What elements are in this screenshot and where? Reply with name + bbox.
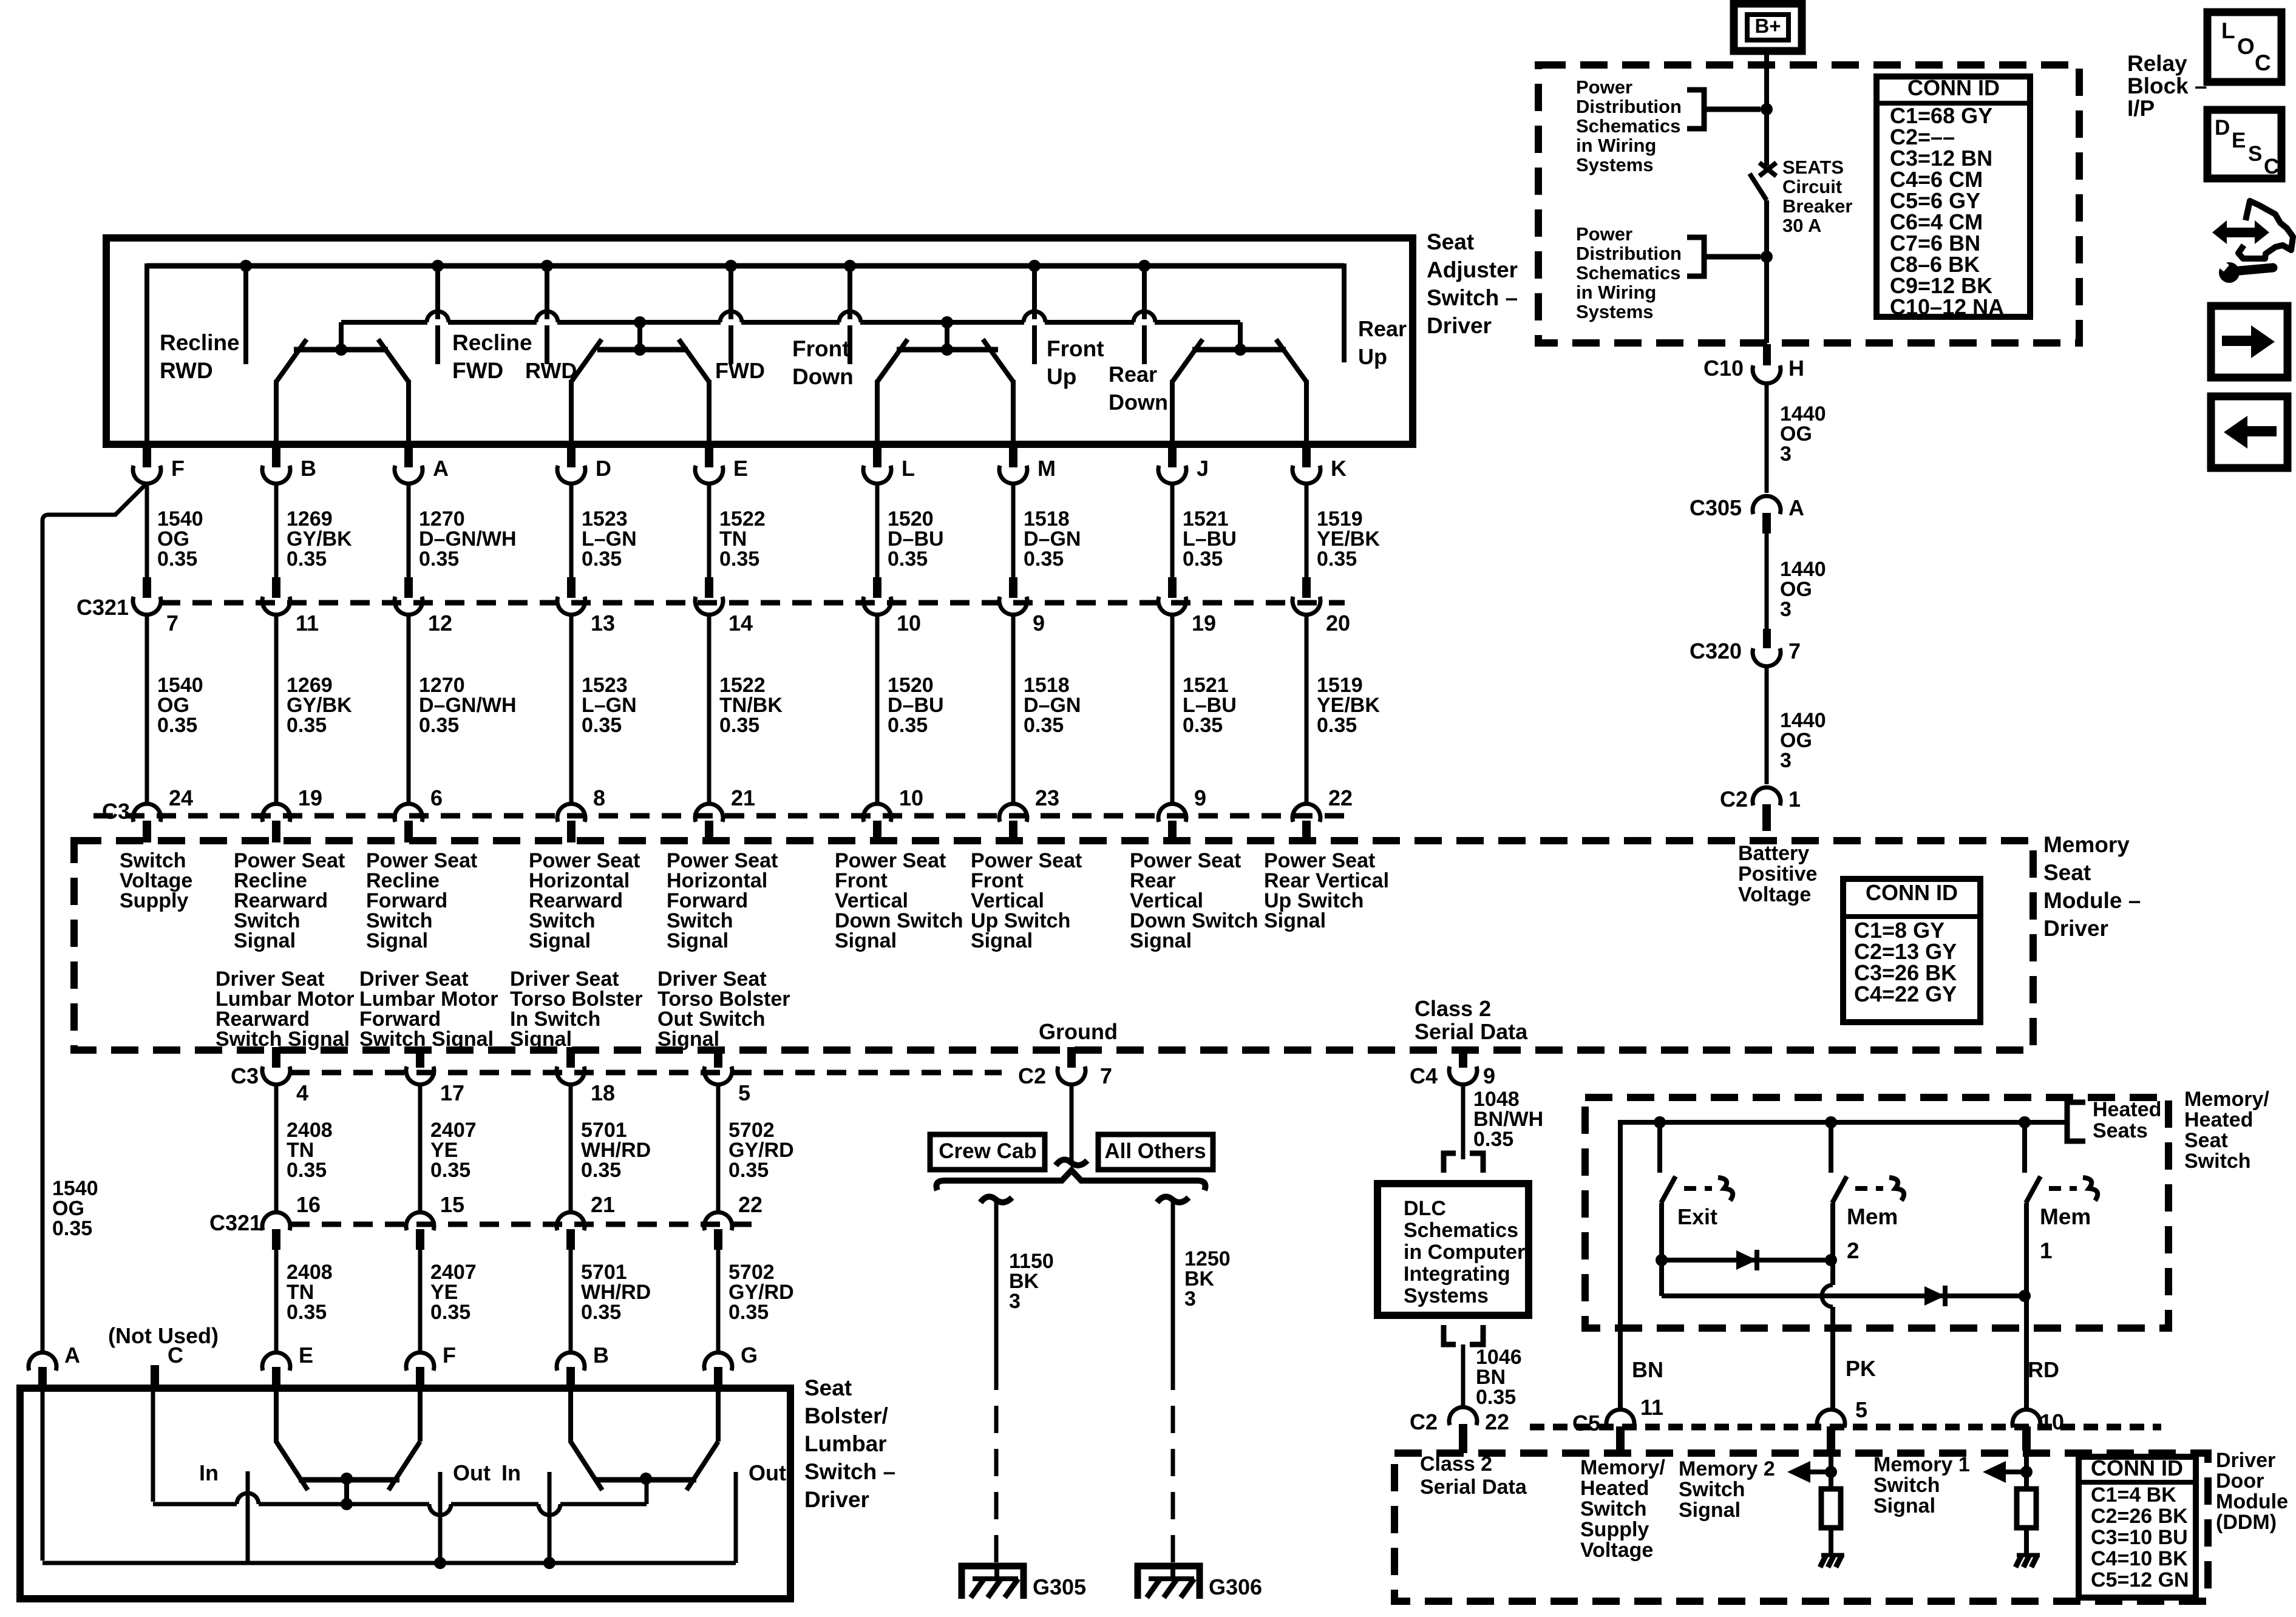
svg-text:Systems: Systems: [1404, 1284, 1489, 1307]
junction dot power distribution tap 2: [1761, 251, 1773, 263]
conn id table ddm: [2079, 1457, 2196, 1598]
wire J pin to C321: [1170, 483, 1175, 578]
svg-text:B: B: [593, 1343, 609, 1368]
hop In1: [237, 1501, 259, 1507]
svg-text:Switch Signal: Switch Signal: [216, 1028, 350, 1051]
svg-text:C: C: [2264, 155, 2279, 178]
wire 1440 OG segment 1: [1765, 384, 1769, 493]
svg-text:Adjuster: Adjuster: [1427, 257, 1518, 282]
svg-text:Seat: Seat: [1427, 229, 1474, 254]
wire C321 to seat bolster switch column 2408: [274, 1236, 279, 1352]
svg-text:C2: C2: [1018, 1063, 1046, 1088]
svg-text:FWD: FWD: [452, 358, 503, 383]
seat adjuster switch box: [106, 238, 1413, 444]
junction dot diode1 right: [1825, 1254, 1837, 1266]
wire PK inside ddm: [1829, 1437, 1833, 1489]
svg-text:22: 22: [1328, 785, 1353, 810]
svg-text:Down: Down: [1109, 390, 1168, 415]
wire hop of lower bus at contact Front Down: [840, 319, 860, 325]
contact Recline RWD: [243, 266, 248, 364]
svg-text:Battery: Battery: [1738, 842, 1809, 865]
svg-text:Memory/: Memory/: [1580, 1456, 1665, 1479]
pin E seat adjuster switch: [705, 444, 713, 467]
connector C321 pin 10: [863, 597, 891, 615]
svg-text:SEATS: SEATS: [1782, 157, 1844, 178]
wire A pin to C321: [407, 483, 411, 578]
svg-text:C2=26 BK: C2=26 BK: [2091, 1505, 2188, 1528]
connector C321 pin 20: [1292, 597, 1320, 615]
bracket power distribution 2: [1687, 237, 1761, 276]
pin D seat adjuster switch: [567, 444, 576, 467]
svg-text:A: A: [433, 456, 449, 481]
svg-text:1: 1: [2040, 1238, 2053, 1263]
svg-text:19: 19: [298, 785, 322, 810]
svg-text:0.35: 0.35: [719, 714, 759, 737]
svg-text:0.35: 0.35: [419, 714, 459, 737]
svg-text:Voltage: Voltage: [1580, 1539, 1653, 1562]
pin J seat adjuster switch: [1168, 444, 1177, 467]
svg-text:Switch: Switch: [1679, 1478, 1745, 1501]
chassis ground memory 2: [1821, 1553, 1844, 1558]
connector C2 pin 22: [1449, 1407, 1477, 1425]
wire C321 to C3 column L: [875, 614, 880, 802]
connector C3 pin 24: [133, 804, 161, 822]
svg-text:C4=10 BK: C4=10 BK: [2091, 1547, 2188, 1570]
connector C321 pin 7: [133, 597, 161, 615]
junction dot diode2 right: [2019, 1290, 2031, 1302]
wire 1440 OG segment 3: [1765, 667, 1769, 784]
wire hop of lower bus at contact Rear Down: [1134, 319, 1155, 325]
wire C321 to C3 column K: [1305, 614, 1309, 802]
svg-text:3: 3: [1009, 1290, 1021, 1313]
svg-text:24: 24: [169, 785, 193, 810]
wire rocker2 stub: [637, 322, 642, 350]
wire L pin to C321: [875, 483, 880, 578]
junction dot trap1 stub: [341, 1498, 353, 1510]
svg-text:FWD: FWD: [715, 358, 765, 383]
connector C3 lower pin 5: [704, 1066, 732, 1085]
rocker switch horizontal (pins D-E): [597, 347, 688, 353]
heated seats bracket: [2067, 1102, 2085, 1141]
svg-text:C: C: [2255, 50, 2271, 75]
junction dot rocker2 on lower bus: [634, 316, 646, 328]
connector C3 lower pin 4: [262, 1066, 290, 1085]
rocker switch recline (pins B-A): [294, 347, 388, 353]
wire PK to ground: [1829, 1527, 1833, 1554]
svg-text:9: 9: [1483, 1063, 1495, 1088]
pin L seat adjuster switch: [873, 444, 881, 467]
contact In 1: [246, 1471, 250, 1563]
svg-text:Signal: Signal: [667, 929, 729, 952]
svg-text:C4=22 GY: C4=22 GY: [1854, 981, 1957, 1006]
svg-text:0.35: 0.35: [157, 714, 197, 737]
switch Mem 1: [2022, 1122, 2027, 1173]
dlc schematics box: [1377, 1184, 1529, 1315]
wire 1540 OG from pin F to seat bolster pin A: [42, 483, 147, 1352]
connector C3 pin 19: [262, 804, 290, 822]
wire RD inside ddm: [2024, 1437, 2029, 1489]
svg-text:C10: C10: [1703, 356, 1744, 381]
svg-text:0.35: 0.35: [888, 714, 928, 737]
svg-text:1: 1: [1788, 787, 1801, 812]
svg-text:Up: Up: [1358, 344, 1387, 369]
connector C2 pin 1: [1753, 787, 1781, 805]
svg-text:BN: BN: [1632, 1357, 1663, 1382]
svg-text:0.35: 0.35: [719, 547, 759, 571]
svg-text:0.35: 0.35: [287, 714, 327, 737]
svg-text:3: 3: [1780, 749, 1792, 772]
svg-text:C5: C5: [1572, 1411, 1600, 1436]
wire break symbol 1250: [1157, 1197, 1189, 1202]
svg-text:L: L: [2221, 18, 2235, 43]
svg-text:Circuit: Circuit: [1782, 176, 1842, 197]
wire B+ to circuit breaker: [1764, 51, 1769, 166]
svg-text:All Others: All Others: [1104, 1139, 1206, 1163]
wire C321 to seat bolster switch column 5702: [716, 1236, 721, 1352]
crew cab box: [930, 1134, 1045, 1170]
rocker switch front vertical (pins L-M): [897, 347, 998, 353]
wire D pin to C321: [569, 483, 574, 578]
wire C321 to C3 column D: [569, 614, 574, 802]
svg-text:Seat: Seat: [2184, 1129, 2228, 1152]
svg-text:8: 8: [593, 785, 605, 810]
svg-text:Recline: Recline: [452, 330, 532, 355]
svg-text:Exit: Exit: [1677, 1204, 1717, 1229]
wire C321 to C3 column A: [407, 614, 411, 802]
svg-text:E: E: [299, 1343, 313, 1368]
svg-text:Signal: Signal: [1873, 1494, 1935, 1517]
svg-text:H: H: [1788, 356, 1804, 381]
wire rocker4 stub: [1238, 322, 1243, 350]
contact Front Down: [847, 266, 852, 364]
svg-text:0.35: 0.35: [581, 1301, 621, 1324]
svg-text:RWD: RWD: [160, 358, 213, 383]
svg-text:21: 21: [591, 1192, 615, 1217]
connector C3 pin 10: [863, 804, 891, 822]
svg-text:in Wiring: in Wiring: [1576, 282, 1656, 303]
svg-text:Class 2: Class 2: [1415, 996, 1491, 1021]
wire hop of lower bus at contact RWD: [537, 319, 557, 325]
svg-text:Distribution: Distribution: [1576, 243, 1682, 264]
contact Rear Down: [1142, 266, 1147, 364]
svg-text:0.35: 0.35: [157, 547, 197, 571]
wire F pin to C321: [145, 483, 149, 578]
connector C3 pin 21: [695, 804, 723, 822]
svg-text:RD: RD: [2028, 1357, 2059, 1382]
svg-text:Breaker: Breaker: [1782, 195, 1852, 217]
svg-text:L: L: [902, 456, 915, 481]
wire bus to pin F: [144, 263, 149, 444]
svg-text:Voltage: Voltage: [1738, 883, 1811, 906]
connector row C321 (lower): [290, 1222, 756, 1227]
wire ground C2-7 down: [1070, 1085, 1074, 1161]
svg-text:Memory: Memory: [2043, 832, 2130, 857]
chassis ground memory 1: [2017, 1553, 2040, 1558]
connector C3 lower pin 18: [557, 1066, 585, 1085]
svg-text:Positive: Positive: [1738, 863, 1817, 886]
svg-text:Recline: Recline: [160, 330, 240, 355]
svg-text:M: M: [1038, 456, 1056, 481]
svg-text:Up: Up: [1047, 364, 1076, 389]
svg-text:(DDM): (DDM): [2216, 1511, 2277, 1534]
connector C3 pin 23: [999, 804, 1027, 822]
connector C3 pin 22: [1292, 804, 1320, 822]
svg-text:C5=12 GN: C5=12 GN: [2091, 1568, 2189, 1592]
svg-text:Memory 2: Memory 2: [1679, 1457, 1775, 1480]
svg-text:21: 21: [731, 785, 755, 810]
svg-text:Signal: Signal: [366, 929, 428, 952]
svg-text:0.35: 0.35: [419, 547, 459, 571]
contact FWD: [729, 266, 733, 364]
svg-text:PK: PK: [1846, 1356, 1876, 1381]
svg-text:0.35: 0.35: [52, 1217, 92, 1240]
svg-text:C2: C2: [1410, 1409, 1438, 1434]
svg-text:E: E: [733, 456, 748, 481]
svg-text:CONN ID: CONN ID: [1907, 75, 2000, 100]
svg-text:Schematics: Schematics: [1576, 115, 1680, 137]
svg-text:S: S: [2248, 142, 2262, 166]
svg-text:9: 9: [1033, 611, 1045, 636]
conn id table relay block: [1877, 76, 2030, 317]
svg-text:17: 17: [440, 1080, 464, 1105]
wire 1150 BK solid: [994, 1200, 999, 1363]
svg-text:C321: C321: [209, 1210, 262, 1235]
wire BN supply down: [1618, 1120, 1623, 1408]
contact Front Up: [1032, 266, 1037, 364]
svg-text:20: 20: [1326, 611, 1350, 636]
svg-text:Mem: Mem: [1847, 1204, 1898, 1229]
wire 1440 OG segment 2: [1765, 529, 1769, 631]
connector C305 pin A: [1753, 496, 1781, 514]
svg-text:Seats: Seats: [2093, 1119, 2148, 1142]
junction dot memory 1 arrow: [2020, 1466, 2033, 1478]
svg-text:B+: B+: [1754, 15, 1781, 37]
staple connector out of DLC box: [1444, 1325, 1483, 1344]
wire M pin to C321: [1011, 483, 1016, 578]
connector C321 lower pin 15: [406, 1212, 434, 1230]
svg-text:C4: C4: [1410, 1063, 1438, 1088]
svg-text:Signal: Signal: [971, 929, 1033, 952]
pin E seat bolster switch: [262, 1352, 290, 1371]
svg-text:Seat: Seat: [804, 1375, 852, 1400]
wire hop of lower bus at contact FWD: [721, 319, 741, 325]
wire C3 to C321 column 2407: [418, 1084, 423, 1211]
junction dot diode1 left: [1656, 1254, 1668, 1266]
connector C10 pin H: [1763, 344, 1771, 365]
svg-text:CONN ID: CONN ID: [1866, 880, 1958, 905]
svg-text:G305: G305: [1033, 1575, 1086, 1599]
contact Out 1: [438, 1472, 443, 1563]
svg-text:11: 11: [1640, 1395, 1663, 1420]
svg-text:Switch: Switch: [2184, 1150, 2251, 1173]
svg-text:G306: G306: [1209, 1575, 1262, 1599]
wire RD to ground: [2024, 1527, 2029, 1554]
svg-text:C2: C2: [1720, 787, 1748, 812]
resistor memory 1: [2017, 1489, 2036, 1528]
svg-text:Switch –: Switch –: [1427, 285, 1518, 310]
junction dot In2 bus: [543, 1557, 555, 1569]
wire E pin to C321: [707, 483, 712, 578]
connector C320 pin 7: [1763, 629, 1771, 648]
svg-text:0.35: 0.35: [1024, 547, 1064, 571]
contact Out 2: [734, 1472, 738, 1563]
svg-text:0.35: 0.35: [287, 1159, 327, 1182]
svg-text:Lumbar: Lumbar: [804, 1431, 887, 1456]
svg-text:Serial Data: Serial Data: [1420, 1476, 1527, 1499]
svg-text:Bolster/: Bolster/: [804, 1403, 888, 1428]
svg-text:C10–12 NA: C10–12 NA: [1890, 294, 2004, 319]
svg-text:Distribution: Distribution: [1576, 96, 1682, 117]
icon arrow left box: [2211, 396, 2288, 468]
svg-text:Driver: Driver: [804, 1487, 869, 1512]
wire C3 to C321 column 5702: [716, 1084, 721, 1211]
svg-text:In: In: [199, 1460, 219, 1485]
diode D2: [1924, 1286, 1945, 1306]
bus wire bottom of bolster switch: [42, 1561, 736, 1565]
wire B pin to C321: [274, 483, 279, 578]
svg-text:Rear: Rear: [1109, 362, 1157, 387]
wire 1250 BK dashed: [1171, 1363, 1175, 1565]
svg-text:C305: C305: [1690, 495, 1742, 520]
svg-text:Power: Power: [1576, 223, 1632, 245]
svg-text:G: G: [741, 1343, 758, 1368]
svg-text:Memory 1: Memory 1: [1873, 1453, 1970, 1476]
svg-text:Signal: Signal: [1679, 1499, 1741, 1522]
connector C321 pin 12: [395, 597, 423, 615]
brace split crew cab / all others: [937, 1170, 1206, 1190]
conn id table memory seat module: [1843, 879, 1980, 1022]
svg-text:Heated: Heated: [1580, 1477, 1649, 1500]
connector C3 lower pin 17: [406, 1066, 434, 1085]
svg-text:10: 10: [899, 785, 923, 810]
hop Out1: [429, 1501, 451, 1507]
connector row C321 (upper): [161, 600, 1345, 606]
connector C2 pin 7 ground: [1058, 1066, 1085, 1085]
connector C321 pin 13: [557, 597, 585, 615]
svg-text:30 A: 30 A: [1782, 215, 1821, 236]
svg-text:Ground: Ground: [1039, 1019, 1118, 1044]
svg-text:Driver: Driver: [2043, 916, 2108, 941]
wire C321 to C3 column M: [1011, 614, 1016, 802]
svg-text:Heated: Heated: [2093, 1098, 2161, 1121]
svg-text:Seat: Seat: [2043, 860, 2091, 885]
svg-text:Mem: Mem: [2040, 1204, 2091, 1229]
svg-text:J: J: [1197, 456, 1209, 481]
driver door module box (dashed): [1394, 1453, 2208, 1601]
bus wire top supply: [147, 263, 1344, 269]
svg-text:7: 7: [1788, 639, 1801, 663]
wire C321 to seat bolster switch column 5701: [569, 1236, 573, 1352]
memory heated seat switch box (dashed): [1585, 1097, 2169, 1328]
svg-text:0.35: 0.35: [581, 1159, 621, 1182]
wire pin A inside box: [41, 1392, 45, 1561]
wire split symbol: [1056, 1160, 1087, 1165]
wire C321 to seat bolster switch column 2407: [418, 1236, 423, 1352]
svg-text:D: D: [596, 456, 611, 481]
svg-text:5: 5: [1855, 1397, 1867, 1422]
wire pin C inside box: [151, 1392, 155, 1502]
all others box: [1098, 1134, 1213, 1170]
svg-text:2: 2: [1847, 1238, 1860, 1263]
connector C321 pin 11: [262, 597, 290, 615]
svg-text:Module: Module: [2216, 1490, 2288, 1513]
rocker switch rear vertical (pins J-K): [1192, 347, 1286, 353]
svg-text:0.35: 0.35: [430, 1301, 470, 1324]
pin F seat bolster switch: [406, 1352, 434, 1371]
svg-text:Relay: Relay: [2127, 51, 2187, 76]
svg-text:D: D: [2215, 116, 2230, 140]
svg-text:22: 22: [1485, 1409, 1509, 1434]
svg-text:Down: Down: [792, 364, 854, 389]
svg-text:0.35: 0.35: [1183, 714, 1223, 737]
wire C321 to C3 column E: [707, 614, 712, 802]
svg-text:3: 3: [1184, 1287, 1196, 1310]
pin B seat adjuster switch: [272, 444, 280, 467]
svg-text:16: 16: [296, 1192, 321, 1217]
diode row 2 wire: [1659, 1258, 1664, 1296]
svg-text:Rear: Rear: [1358, 316, 1407, 341]
svg-text:C3: C3: [231, 1063, 259, 1088]
junction dot exit: [1654, 1116, 1666, 1128]
svg-text:A: A: [1788, 495, 1804, 520]
svg-text:Front: Front: [792, 336, 850, 361]
wire C3 to C321 column 2408: [274, 1084, 279, 1211]
wire hop of lower bus at contact Recline FWD: [427, 319, 448, 325]
icon double arrow with panel and wrench: [2212, 220, 2269, 244]
svg-text:3: 3: [1780, 442, 1792, 466]
wire rocker1 stub: [339, 322, 344, 350]
svg-text:Supply: Supply: [1580, 1518, 1649, 1541]
svg-text:0.35: 0.35: [1317, 547, 1357, 571]
svg-text:0.35: 0.35: [1024, 714, 1064, 737]
bracket power distribution 1: [1687, 90, 1761, 129]
svg-text:(Not Used): (Not Used): [108, 1323, 219, 1348]
hop In2: [538, 1501, 560, 1507]
svg-text:Out: Out: [453, 1460, 491, 1485]
pin C seat bolster switch (not used): [151, 1365, 159, 1389]
svg-text:Out: Out: [749, 1460, 786, 1485]
svg-text:Signal: Signal: [657, 1028, 719, 1051]
connector C4 pin 9: [1449, 1066, 1477, 1085]
svg-text:7: 7: [166, 611, 178, 636]
svg-text:RWD: RWD: [525, 358, 577, 383]
svg-text:Heated: Heated: [2184, 1108, 2253, 1131]
contact In 2: [548, 1472, 552, 1563]
svg-text:Signal: Signal: [234, 929, 296, 952]
svg-text:0.35: 0.35: [1317, 714, 1357, 737]
junction dot power distribution tap 1: [1761, 103, 1773, 115]
B+ battery symbol: [1734, 4, 1802, 51]
wire C3 to C321 column 5701: [569, 1084, 573, 1211]
svg-text:14: 14: [729, 611, 753, 636]
icon LOC box: [2207, 12, 2281, 82]
svg-text:C3: C3: [102, 799, 130, 824]
pin G seat bolster switch: [704, 1352, 732, 1371]
svg-text:15: 15: [440, 1192, 464, 1217]
svg-text:13: 13: [591, 611, 615, 636]
svg-text:0.35: 0.35: [287, 547, 327, 571]
svg-text:22: 22: [738, 1192, 763, 1217]
svg-text:Signal: Signal: [1130, 929, 1192, 952]
pin B seat bolster switch: [557, 1352, 585, 1371]
wire common mid bolster: [153, 1502, 647, 1507]
svg-text:0.35: 0.35: [1183, 547, 1223, 571]
connector C321 lower pin 21: [557, 1212, 585, 1230]
connector C321 pin 14: [695, 597, 723, 615]
svg-text:Systems: Systems: [1576, 301, 1654, 322]
diode D1: [1736, 1250, 1757, 1270]
wire 1048 BN/WH: [1461, 1084, 1466, 1159]
